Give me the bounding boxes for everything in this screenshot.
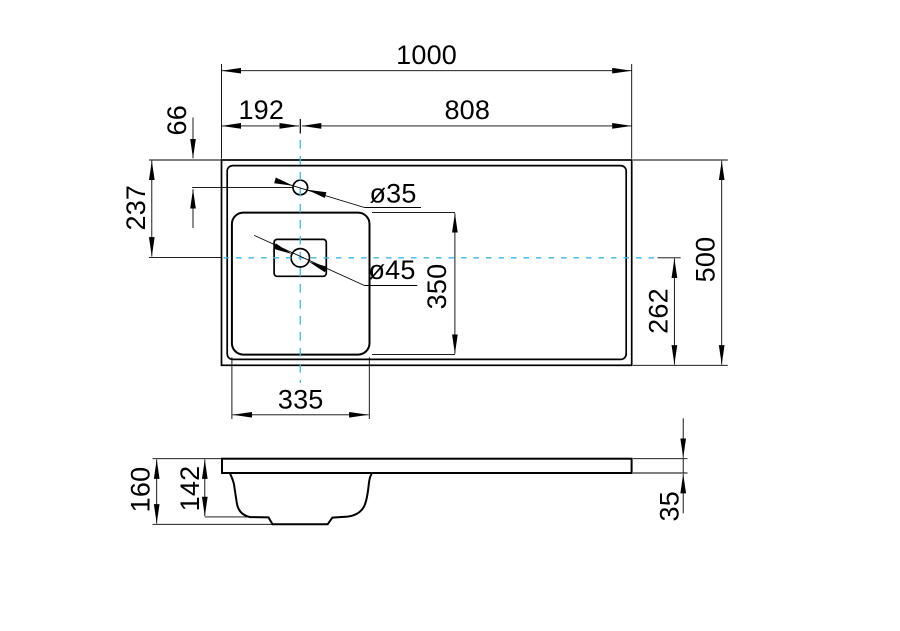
dimension 335: dimension line <box>233 414 369 416</box>
dimension 335: extension lines <box>231 357 233 419</box>
diameter 35 leader: left arrowhead <box>274 178 293 186</box>
svg-text:237: 237 <box>121 185 151 231</box>
svg-text:808: 808 <box>444 95 490 125</box>
side view: extension at bowl bottom (142) <box>205 516 268 518</box>
dimension 66: upper arrow segment <box>192 118 194 159</box>
svg-text:1000: 1000 <box>396 40 457 70</box>
dimension 35: upper arrow segment <box>682 418 684 458</box>
dimension 192: dimension line <box>222 125 300 127</box>
extension line at drain centre (left) <box>149 256 221 258</box>
svg-text:160: 160 <box>125 467 155 513</box>
svg-text:ø45: ø45 <box>368 255 415 285</box>
centerline vertical (cyan dashed) <box>299 140 301 383</box>
dimension 35: lower arrow segment <box>682 474 684 514</box>
dimension 160: dimension line <box>156 459 158 523</box>
dimension 35: connector <box>682 459 684 473</box>
extension line at faucet centre <box>192 186 293 188</box>
diameter 45 leader line <box>254 235 364 285</box>
svg-text:500: 500 <box>691 237 721 283</box>
svg-text:35: 35 <box>654 491 684 521</box>
svg-text:335: 335 <box>278 385 324 415</box>
dimension 350: dimension line <box>454 213 456 354</box>
diameter 35 leader: right arrowhead <box>307 190 326 198</box>
dimension 66: lower arrow segment <box>192 189 194 228</box>
side view: bowl profile <box>230 474 372 525</box>
svg-text:350: 350 <box>422 264 452 310</box>
left extension line at rim top <box>149 159 222 161</box>
dimension 1000: extension lines <box>221 64 223 159</box>
dimension 500: extension lines <box>633 159 728 161</box>
top view: basin rounded square <box>232 213 370 355</box>
svg-text:ø35: ø35 <box>369 179 416 209</box>
dimension 262: extension line <box>658 257 681 259</box>
dimension 1000: dimension line <box>222 70 632 72</box>
diameter 45 leader: left arrowhead <box>273 243 292 254</box>
svg-text:66: 66 <box>162 105 192 135</box>
side view: extension at boss bottom (160) <box>153 523 274 525</box>
diameter 45 label underline <box>364 285 417 287</box>
dimension 237: dimension line <box>151 161 153 257</box>
diameter 35 label underline <box>364 207 421 209</box>
centerline horizontal (cyan dashed) <box>224 257 658 259</box>
dimension 808: dimension line <box>302 125 632 127</box>
svg-text:262: 262 <box>643 288 673 334</box>
top view: inner rim rounded rectangle <box>227 166 626 360</box>
side view: left extension at slab top <box>153 458 223 460</box>
dimension 350: extension lines <box>372 211 455 213</box>
svg-text:142: 142 <box>175 466 205 512</box>
top view: drain recess rectangle <box>274 239 326 276</box>
tick at 192/808 split <box>299 119 301 134</box>
dimension 35: extension lines <box>633 458 688 460</box>
faucet hole circle <box>293 180 308 195</box>
dimension 500: dimension line <box>721 161 723 365</box>
side view: countertop slab <box>222 459 632 473</box>
diameter 45 leader: right arrowhead <box>309 262 328 273</box>
dimension 262: dimension line <box>673 259 675 365</box>
diameter 35 leader line <box>275 180 364 207</box>
drain hole circle <box>291 249 309 267</box>
dimension 142: dimension line <box>204 459 206 516</box>
top view: outer rim rectangle <box>222 160 632 365</box>
svg-text:192: 192 <box>238 95 284 125</box>
